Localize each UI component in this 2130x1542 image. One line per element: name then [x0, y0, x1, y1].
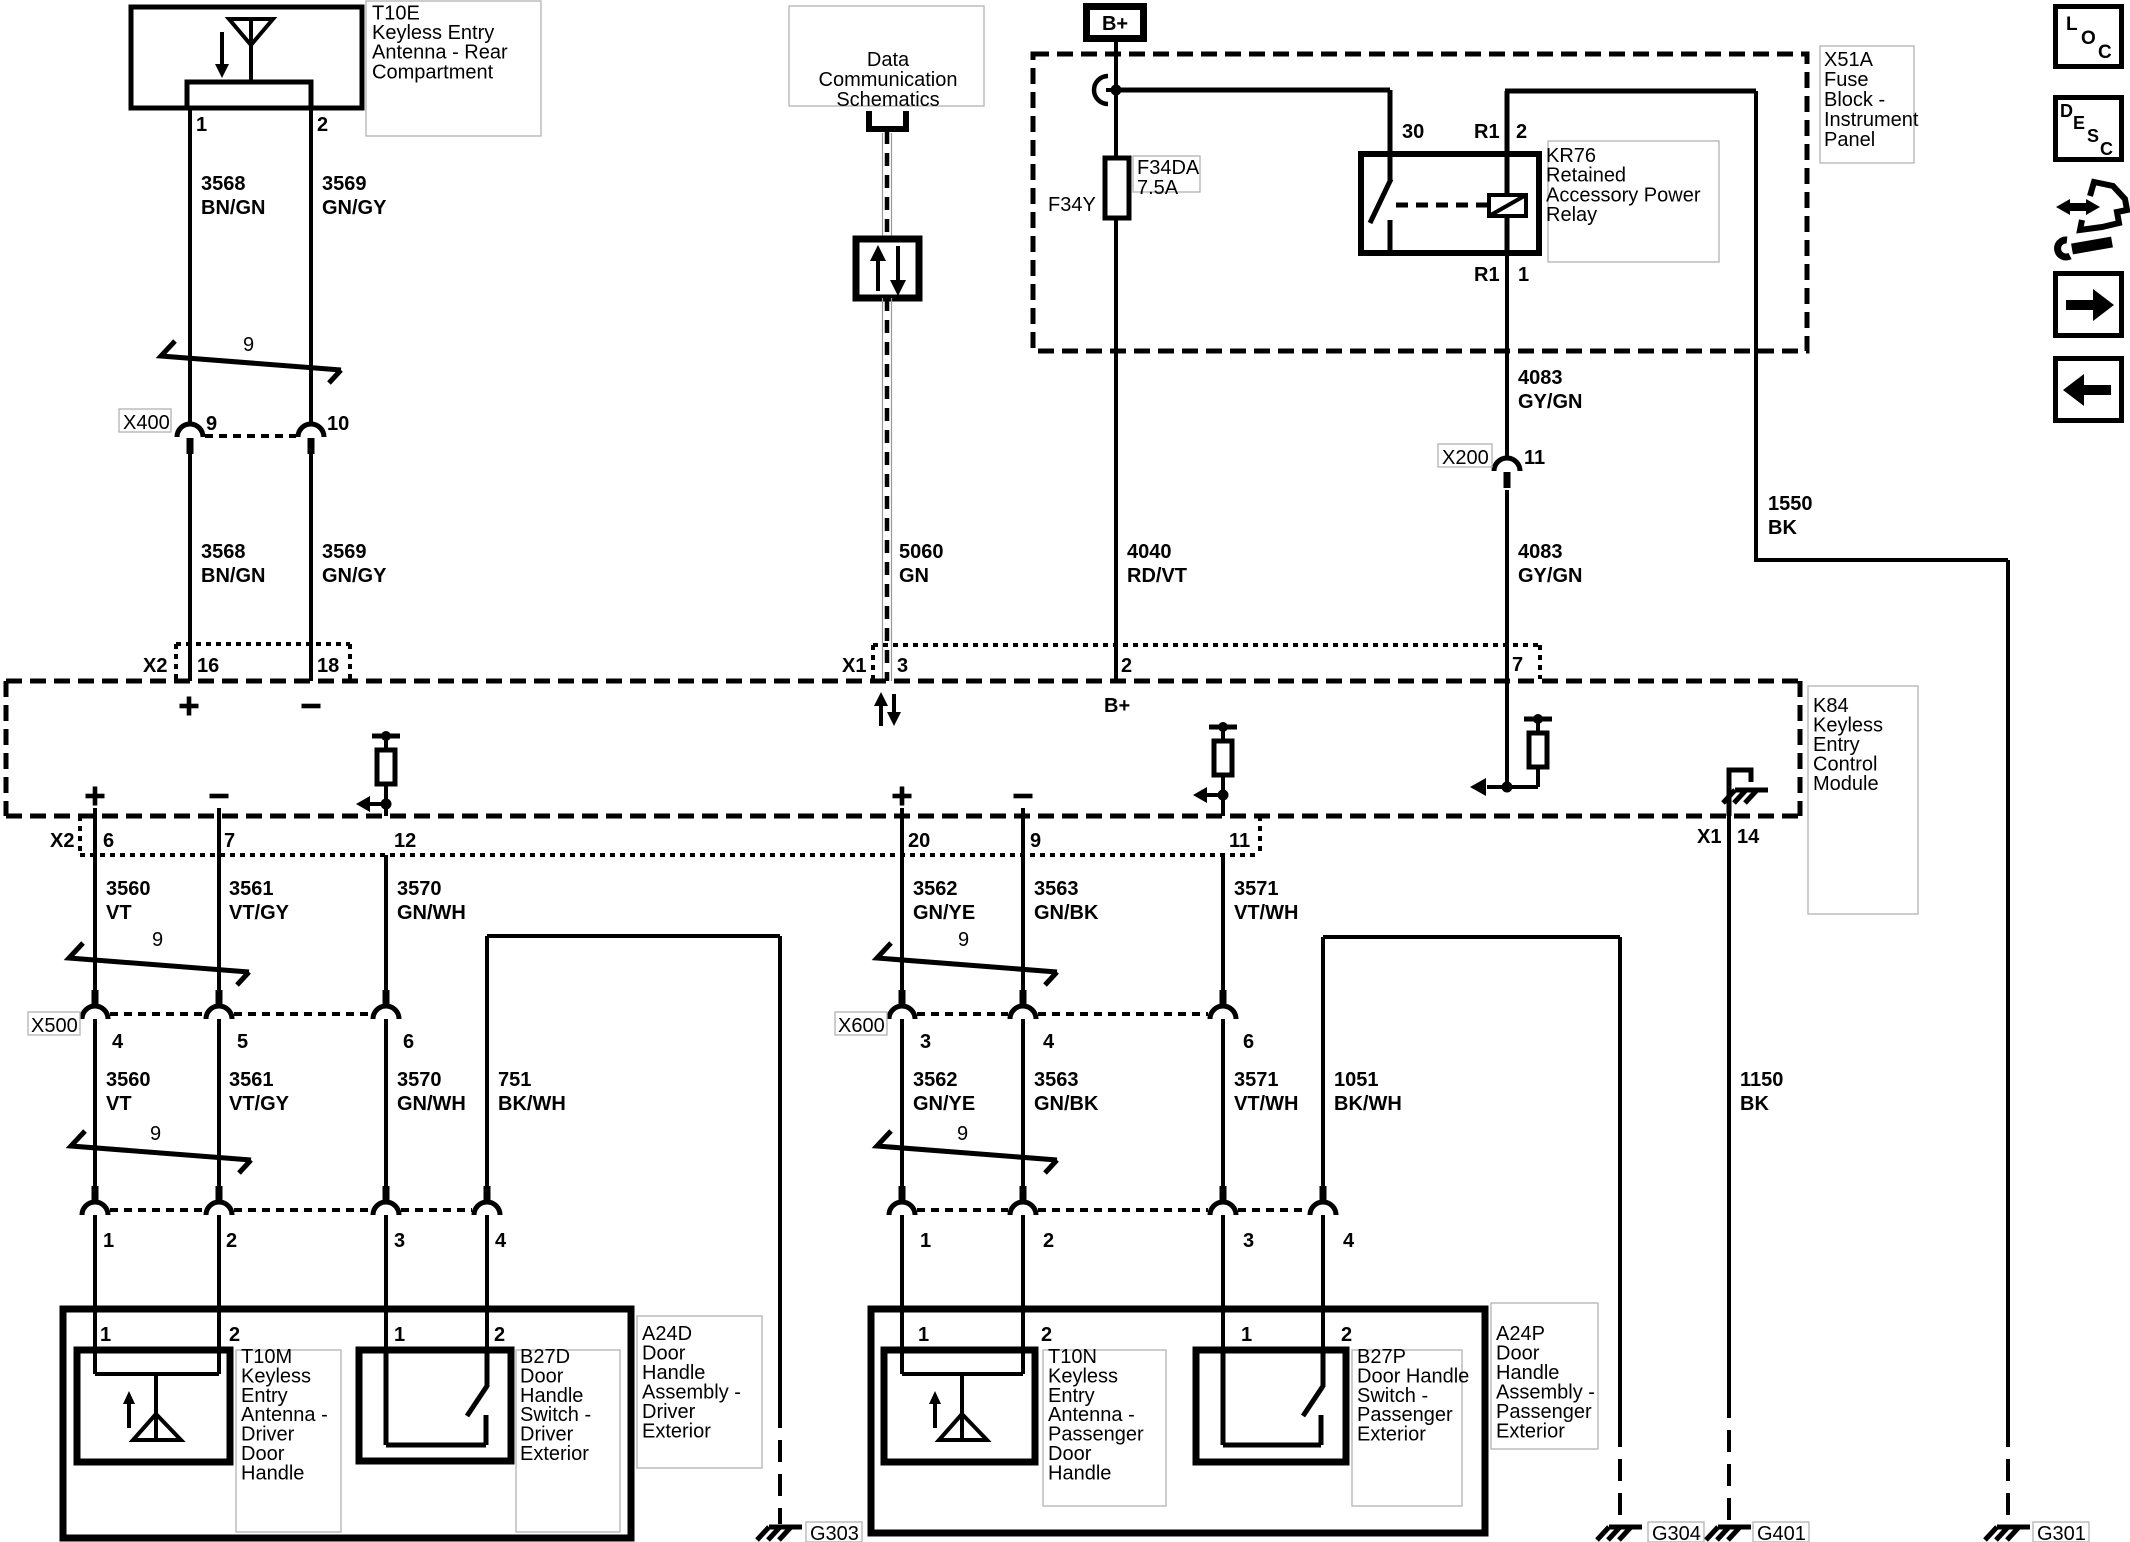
wire 4083 GY/GN upper segment — [1505, 253, 1509, 458]
wire 1150 BK solid segment — [1727, 816, 1731, 1396]
svg-text:BN/GN: BN/GN — [201, 197, 265, 219]
label Data Communication Schematics — [789, 6, 984, 106]
wire 3569 GN/GY upper segment — [309, 108, 313, 424]
relay KR76 box — [1361, 154, 1539, 253]
svg-text:G304: G304 — [1652, 1523, 1701, 1542]
wire 3561 VT/GY upper segment — [217, 816, 221, 990]
passenger door connector pin 2 bump — [1010, 1186, 1036, 1215]
svg-text:Accessory Power: Accessory Power — [1546, 184, 1701, 206]
label T10M Keyless Entry Antenna - Driver Door Handle — [236, 1350, 341, 1532]
svg-text:3561: 3561 — [229, 878, 274, 900]
wire 3570 GN/WH upper segment — [384, 855, 388, 990]
twisted pair marker (driver antenna upper) — [69, 943, 249, 985]
wire to B27D pin 1 — [384, 1215, 388, 1350]
module internal chassis ground mark — [1723, 790, 1768, 803]
antenna T10E connector base — [187, 82, 311, 108]
svg-text:Communication: Communication — [819, 69, 958, 91]
svg-text:GN/YE: GN/YE — [913, 902, 975, 924]
svg-text:9: 9 — [958, 929, 969, 951]
connector X500 pin 6 bump — [373, 990, 399, 1019]
module internal wire from pin 7 — [1505, 681, 1509, 787]
power feed B+ box — [1087, 7, 1144, 39]
svg-text:1550: 1550 — [1768, 493, 1813, 515]
svg-text:3562: 3562 — [913, 878, 958, 900]
ground run G303 solid segment — [778, 936, 782, 1406]
svg-text:Exterior: Exterior — [520, 1443, 589, 1465]
wire through fuse F34Y — [1114, 158, 1118, 351]
svg-text:G301: G301 — [2037, 1523, 2086, 1542]
svg-text:2: 2 — [1121, 655, 1132, 677]
connector X1 row (pins 3 2 7) dotted box — [873, 645, 1540, 679]
svg-text:BK/WH: BK/WH — [1334, 1093, 1402, 1115]
svg-text:9: 9 — [152, 929, 163, 951]
svg-text:G401: G401 — [1757, 1523, 1806, 1542]
svg-text:X1: X1 — [1697, 826, 1721, 848]
svg-text:4083: 4083 — [1518, 541, 1563, 563]
module pull-up resistor and signal arrow (pin 7) — [1470, 714, 1552, 796]
wire 3561 VT/GY lower segment — [217, 1019, 221, 1186]
wire B+ into fuse block — [1114, 42, 1118, 158]
label A24D Door Handle Assembly - Driver Exterior — [637, 1316, 762, 1468]
svg-text:3: 3 — [920, 1031, 931, 1053]
svg-text:3563: 3563 — [1034, 1069, 1079, 1091]
T10M antenna symbol — [123, 1374, 181, 1440]
connector X500 dashed link b — [234, 1012, 371, 1016]
svg-text:Exterior: Exterior — [642, 1421, 711, 1443]
svg-text:X200: X200 — [1442, 447, 1489, 469]
door handle assembly A24P box — [871, 1309, 1485, 1533]
ground G301 symbol — [1985, 1527, 2030, 1540]
T10M coupling bar — [95, 1372, 219, 1376]
svg-text:Handle: Handle — [1048, 1462, 1111, 1484]
svg-text:9: 9 — [957, 1123, 968, 1145]
svg-text:5: 5 — [237, 1031, 248, 1053]
svg-text:1: 1 — [196, 114, 207, 136]
connector X400 dashed link — [205, 434, 296, 438]
svg-text:Fuse: Fuse — [1824, 69, 1868, 91]
antenna T10M box — [77, 1350, 230, 1462]
passenger door connector dashed link a — [917, 1208, 1008, 1212]
svg-text:3569: 3569 — [322, 541, 367, 563]
wire 3571 VT/WH upper segment — [1221, 855, 1225, 990]
driver door connector pin 2 bump — [206, 1186, 232, 1215]
svg-text:GN/YE: GN/YE — [913, 1093, 975, 1115]
svg-text:3: 3 — [394, 1230, 405, 1252]
label G304 — [1648, 1522, 1704, 1542]
svg-text:9: 9 — [150, 1123, 161, 1145]
fuse F34Y F34DA 7.5A — [1105, 158, 1129, 218]
label X600 — [835, 1012, 887, 1035]
svg-text:1051: 1051 — [1334, 1069, 1379, 1091]
svg-text:Instrument: Instrument — [1824, 109, 1919, 131]
connector X600 pin 6 bump — [1210, 990, 1236, 1019]
svg-text:GN/WH: GN/WH — [397, 1093, 466, 1115]
driver door connector dashed link c — [401, 1208, 472, 1212]
svg-text:2: 2 — [226, 1230, 237, 1252]
wire to T10M pin 1 — [93, 1215, 97, 1374]
wire 3562 GN/YE upper segment — [900, 816, 904, 990]
wire 3568 BN/GN lower segment — [188, 454, 192, 681]
serial data wire 5060 upper dashed — [883, 131, 892, 239]
svg-text:Relay: Relay — [1546, 204, 1597, 226]
B27P switch contacts — [1223, 1350, 1323, 1445]
svg-text:GN/GY: GN/GY — [322, 565, 387, 587]
ground G303 symbol — [757, 1527, 802, 1540]
icon button DESC — [2056, 98, 2122, 160]
relay KR76 actuator dashed link — [1396, 203, 1487, 208]
module internal wire pin 12 — [384, 804, 388, 816]
wire 3563 GN/BK lower segment — [1021, 1019, 1025, 1186]
ground run G304 dashed segment — [1618, 1425, 1622, 1524]
driver door connector dashed link a — [110, 1208, 204, 1212]
svg-text:S: S — [2087, 126, 2099, 146]
antenna T10N box — [884, 1350, 1035, 1462]
svg-text:11: 11 — [1524, 447, 1545, 469]
svg-text:BN/GN: BN/GN — [201, 565, 265, 587]
wire to B27P pin 1 — [1221, 1215, 1225, 1350]
svg-text:F34Y: F34Y — [1048, 194, 1096, 216]
module internal wire pin 20 — [900, 808, 904, 816]
connector X600 pin 3 bump — [889, 990, 915, 1019]
wire to T10N pin 1 — [900, 1215, 904, 1374]
svg-text:1: 1 — [394, 1324, 405, 1346]
svg-text:4: 4 — [495, 1230, 507, 1252]
wire 3568 BN/GN upper segment — [188, 108, 192, 424]
antenna T10E outer box — [131, 7, 362, 108]
connector X400 pin 10 bump — [298, 424, 324, 454]
svg-text:2: 2 — [1043, 1230, 1054, 1252]
wire 3560 VT upper segment — [93, 816, 97, 990]
door handle assembly A24D box — [63, 1309, 631, 1538]
svg-text:GY/GN: GY/GN — [1518, 565, 1582, 587]
svg-text:9: 9 — [243, 334, 254, 356]
label X200 — [1438, 444, 1492, 467]
svg-text:18: 18 — [317, 655, 339, 677]
connector X2 bottom row dotted box — [80, 816, 1260, 855]
label B27P Door Handle Switch - Passenger Exterior — [1352, 1350, 1462, 1506]
wire 3570 GN/WH lower segment — [384, 1019, 388, 1186]
svg-text:2: 2 — [317, 114, 328, 136]
svg-text:3568: 3568 — [201, 541, 246, 563]
svg-text:C: C — [2100, 139, 2113, 159]
svg-text:C: C — [2098, 42, 2112, 63]
svg-text:VT/GY: VT/GY — [229, 1093, 290, 1115]
svg-text:30: 30 — [1402, 121, 1424, 143]
svg-text:E: E — [2073, 113, 2085, 133]
svg-text:2: 2 — [1341, 1324, 1352, 1346]
connector X600 dashed link a — [917, 1012, 1008, 1016]
driver door connector pin 4 bump — [474, 1186, 500, 1215]
svg-text:BK/WH: BK/WH — [498, 1093, 566, 1115]
relay KR76 switch contact — [1370, 154, 1391, 253]
svg-text:GN/GY: GN/GY — [322, 197, 387, 219]
antenna T10E symbol — [215, 19, 273, 82]
label T10E Keyless Entry Antenna - Rear Compartment — [366, 1, 541, 136]
T10N antenna symbol — [929, 1374, 987, 1440]
svg-text:X51A: X51A — [1824, 49, 1874, 71]
svg-text:GN/BK: GN/BK — [1034, 902, 1099, 924]
driver door connector dashed link b — [234, 1208, 371, 1212]
wire 1550 BK down to G301 — [2006, 560, 2010, 1425]
label T10N Keyless Entry Antenna - Passenger Door Handle — [1043, 1350, 1166, 1506]
svg-text:Block -: Block - — [1824, 89, 1885, 111]
wire 3563 GN/BK upper segment — [1021, 816, 1025, 990]
serial data symbol box — [856, 239, 919, 298]
connector X600 dashed link b — [1038, 1012, 1208, 1016]
svg-text:GN: GN — [899, 565, 929, 587]
driver door connector pin 3 bump — [373, 1186, 399, 1215]
svg-text:1: 1 — [103, 1230, 114, 1252]
svg-text:6: 6 — [403, 1031, 414, 1053]
svg-text:6: 6 — [103, 830, 114, 852]
svg-text:GN/WH: GN/WH — [397, 902, 466, 924]
twisted pair marker (driver antenna lower) — [71, 1131, 251, 1173]
connector X500 dashed link a — [110, 1012, 204, 1016]
module serial data arrows — [874, 692, 901, 726]
wire 4040 RD/VT to module — [1114, 218, 1118, 681]
polarity marks passenger antenna drive — [893, 787, 912, 806]
svg-text:Exterior: Exterior — [1357, 1424, 1426, 1446]
svg-text:3570: 3570 — [397, 1069, 442, 1091]
fuse block X51A dashed outline — [1033, 54, 1807, 351]
wire 3571 VT/WH lower segment — [1221, 1019, 1225, 1186]
svg-text:X400: X400 — [123, 412, 170, 434]
icon button next arrow — [2056, 274, 2122, 336]
svg-text:3569: 3569 — [322, 173, 367, 195]
T10N coupling bar — [902, 1372, 1023, 1376]
passenger door connector dashed link b — [1038, 1208, 1208, 1212]
icon button LOC — [2056, 7, 2122, 67]
svg-text:VT/WH: VT/WH — [1234, 902, 1298, 924]
driver door connector pin 1 bump — [82, 1186, 108, 1215]
svg-text:1: 1 — [920, 1230, 931, 1252]
wire to B27D pin 2 — [485, 1215, 489, 1350]
svg-text:X500: X500 — [31, 1015, 78, 1037]
svg-text:4040: 4040 — [1127, 541, 1172, 563]
svg-text:Retained: Retained — [1546, 165, 1626, 187]
svg-text:X2: X2 — [50, 830, 74, 852]
svg-text:BK: BK — [1768, 517, 1797, 539]
label G401 — [1753, 1522, 1809, 1542]
svg-text:D: D — [2060, 101, 2073, 121]
svg-text:Module: Module — [1813, 773, 1879, 795]
svg-text:VT/GY: VT/GY — [229, 902, 290, 924]
wire to T10N pin 2 — [1021, 1215, 1025, 1374]
ground run G301 dashed segment — [2006, 1425, 2010, 1524]
polarity marks antenna input — [180, 697, 199, 716]
svg-text:3571: 3571 — [1234, 878, 1279, 900]
bus wire B+ to relay pin 30 — [1116, 88, 1390, 93]
passenger door connector pin 3 bump — [1210, 1186, 1236, 1215]
wire 1550 BK vertical in fuse block — [1754, 91, 1758, 562]
svg-text:751: 751 — [498, 1069, 531, 1091]
module internal wire pin 11 — [1221, 795, 1225, 816]
wire 751 BK/WH horizontal to ground run — [487, 934, 780, 938]
svg-text:5060: 5060 — [899, 541, 944, 563]
ground G304 symbol — [1597, 1527, 1642, 1540]
label G301 — [2033, 1522, 2089, 1542]
polarity marks driver antenna drive — [86, 787, 105, 806]
svg-text:4083: 4083 — [1518, 367, 1563, 389]
bus wire to 1550 BK drop — [1505, 89, 1756, 94]
label K84 Keyless Entry Control Module — [1808, 686, 1918, 914]
svg-text:3: 3 — [1243, 1230, 1254, 1252]
svg-text:RD/VT: RD/VT — [1127, 565, 1187, 587]
passenger door connector pin 4 bump — [1310, 1186, 1336, 1215]
svg-text:3568: 3568 — [201, 173, 246, 195]
svg-text:16: 16 — [197, 655, 219, 677]
wire 1550 BK horizontal jog — [1756, 558, 2008, 562]
module internal wire pin 9 — [1021, 808, 1025, 816]
relay KR76 coil — [1489, 154, 1526, 253]
svg-text:O: O — [2081, 28, 2096, 49]
svg-text:X600: X600 — [838, 1015, 885, 1037]
svg-text:KR76: KR76 — [1546, 145, 1596, 167]
svg-text:Data: Data — [867, 49, 910, 71]
module internal ground hook (pin X1-14) — [1729, 770, 1751, 816]
svg-text:3562: 3562 — [913, 1069, 958, 1091]
svg-text:Panel: Panel — [1824, 129, 1875, 151]
module internal wire pin 6 — [93, 808, 97, 816]
svg-text:L: L — [2066, 14, 2078, 35]
label X400 — [119, 409, 171, 432]
connector X600 pin 4 bump — [1010, 990, 1036, 1019]
wire relay pin R1-2 riser — [1505, 91, 1510, 154]
wire 3560 VT lower segment — [93, 1019, 97, 1186]
svg-text:2: 2 — [1041, 1324, 1052, 1346]
wire 3569 GN/GY lower segment — [309, 454, 313, 681]
svg-text:4: 4 — [112, 1031, 124, 1053]
svg-text:3560: 3560 — [106, 878, 151, 900]
svg-text:Schematics: Schematics — [836, 89, 939, 111]
label X51A Fuse Block - Instrument Panel — [1820, 46, 1914, 163]
svg-text:7.5A: 7.5A — [1137, 177, 1179, 199]
wire 4083 GY/GN lower segment — [1505, 490, 1509, 681]
wire to B27P pin 2 — [1321, 1215, 1325, 1350]
svg-text:20: 20 — [908, 830, 930, 852]
data schematic bracket — [869, 111, 906, 129]
wire 1051 BK/WH horizontal to ground run — [1323, 935, 1620, 939]
svg-text:3561: 3561 — [229, 1069, 274, 1091]
svg-text:G303: G303 — [810, 1523, 859, 1542]
module switch sense resistor (pin 12) — [356, 731, 400, 812]
svg-text:7: 7 — [1512, 654, 1523, 676]
ground run G303 dashed segment — [778, 1406, 782, 1524]
B27D switch contacts — [386, 1350, 487, 1445]
twisted pair marker (rear antenna wires) — [161, 341, 341, 383]
label A24P Door Handle Assembly - Passenger Exterior — [1491, 1303, 1598, 1449]
svg-text:1: 1 — [918, 1324, 929, 1346]
svg-text:VT: VT — [106, 902, 132, 924]
icon wiring repair (arrow and wrench) — [2056, 182, 2127, 257]
module K84 dashed outline — [6, 681, 1800, 816]
wire 3562 GN/YE lower segment — [900, 1019, 904, 1186]
svg-text:6: 6 — [1243, 1031, 1254, 1053]
svg-text:Compartment: Compartment — [372, 61, 494, 83]
svg-text:R1: R1 — [1474, 264, 1500, 286]
wire drop to relay pin 30 — [1388, 90, 1393, 154]
label F34DA 7.5A — [1133, 156, 1200, 192]
svg-text:3: 3 — [897, 655, 908, 677]
connector X400 pin 9 bump — [177, 424, 203, 454]
svg-text:2: 2 — [494, 1324, 505, 1346]
passenger door connector pin 1 bump — [889, 1186, 915, 1215]
svg-text:VT: VT — [106, 1093, 132, 1115]
bus continuation clip — [1094, 76, 1108, 104]
svg-text:VT/WH: VT/WH — [1234, 1093, 1298, 1115]
passenger door connector dashed link c — [1238, 1208, 1308, 1212]
svg-text:X2: X2 — [143, 655, 167, 677]
svg-text:7: 7 — [224, 830, 235, 852]
svg-text:B+: B+ — [1104, 695, 1130, 717]
icon button back arrow — [2056, 359, 2122, 421]
wire 751 BK/WH vertical upper — [485, 936, 489, 1186]
svg-text:9: 9 — [206, 413, 217, 435]
svg-text:X1: X1 — [842, 655, 866, 677]
svg-text:B+: B+ — [1102, 13, 1128, 35]
svg-text:2: 2 — [1516, 121, 1527, 143]
twisted pair marker (passenger antenna lower) — [877, 1131, 1057, 1173]
svg-text:R1: R1 — [1474, 121, 1500, 143]
twisted pair marker (passenger antenna upper) — [877, 943, 1057, 985]
svg-text:1: 1 — [1241, 1324, 1252, 1346]
svg-text:3571: 3571 — [1234, 1069, 1279, 1091]
svg-text:4: 4 — [1043, 1031, 1055, 1053]
svg-text:10: 10 — [327, 413, 349, 435]
svg-text:4: 4 — [1343, 1230, 1355, 1252]
module internal wire pin 7 X2 — [217, 808, 221, 816]
junction dot on B+ bus — [1111, 85, 1122, 96]
label B27D Door Handle Switch - Driver Exterior — [516, 1350, 620, 1532]
svg-text:9: 9 — [1030, 830, 1041, 852]
connector X2 row (pins 16 18) dotted box — [176, 644, 350, 679]
ground G401 symbol — [1706, 1527, 1751, 1540]
label KR76 Retained Accessory Power Relay — [1548, 141, 1719, 262]
svg-text:1150: 1150 — [1740, 1069, 1783, 1091]
module switch sense resistor (pin 11) — [1193, 722, 1237, 803]
svg-text:BK: BK — [1740, 1093, 1769, 1115]
svg-text:2: 2 — [229, 1324, 240, 1346]
ground run G401 dashed segment — [1727, 1396, 1731, 1524]
svg-text:GN/BK: GN/BK — [1034, 1093, 1099, 1115]
svg-text:Handle: Handle — [241, 1462, 304, 1484]
connector X200 pin 11 bump — [1494, 458, 1520, 488]
switch B27P box — [1196, 1350, 1346, 1462]
svg-text:3570: 3570 — [397, 878, 442, 900]
connector X500 pin 5 bump — [206, 990, 232, 1019]
switch B27D box — [359, 1350, 511, 1461]
label X500 — [28, 1012, 80, 1035]
svg-text:1: 1 — [100, 1324, 111, 1346]
wire 1051 BK/WH vertical upper — [1321, 937, 1325, 1186]
svg-text:12: 12 — [394, 830, 416, 852]
svg-text:3560: 3560 — [106, 1069, 151, 1091]
svg-text:14: 14 — [1737, 826, 1760, 848]
svg-text:GY/GN: GY/GN — [1518, 391, 1582, 413]
wire to T10M pin 2 — [217, 1215, 221, 1374]
serial data wire 5060 lower dashed — [883, 298, 892, 681]
svg-text:11: 11 — [1229, 830, 1250, 852]
svg-text:Exterior: Exterior — [1496, 1421, 1565, 1443]
svg-text:3563: 3563 — [1034, 878, 1079, 900]
svg-text:1: 1 — [1518, 264, 1529, 286]
svg-text:F34DA: F34DA — [1137, 157, 1200, 179]
connector X500 pin 4 bump — [82, 990, 108, 1019]
label G303 — [806, 1522, 862, 1542]
ground run G304 solid segment — [1618, 937, 1622, 1425]
